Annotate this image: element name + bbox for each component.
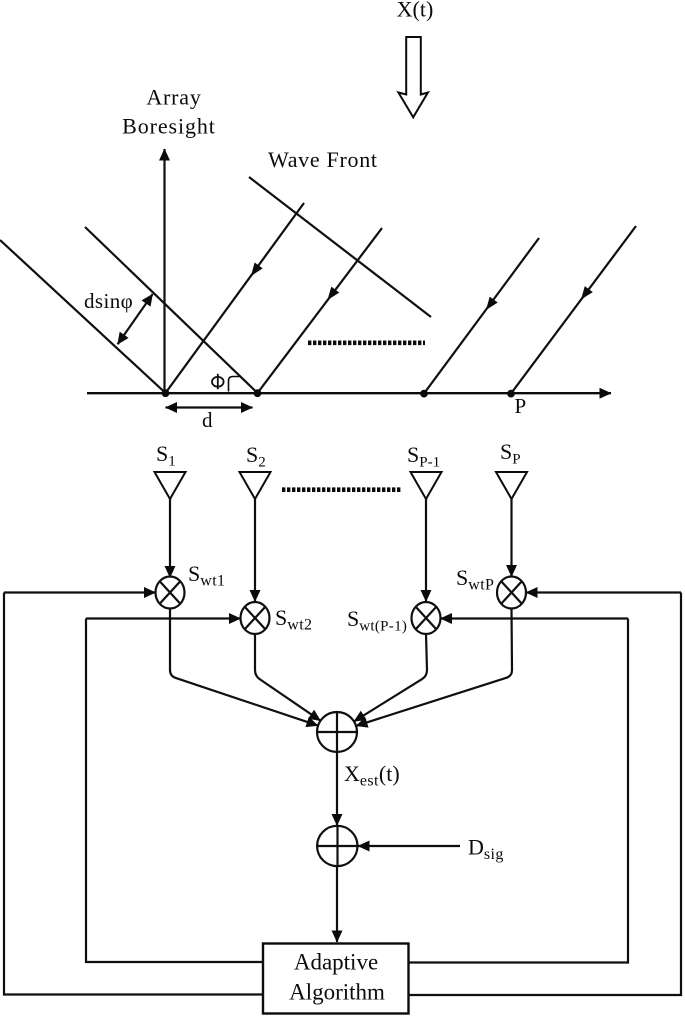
- label phi: [212, 374, 224, 390]
- wire multiplier M4 to summer: [356, 609, 512, 726]
- wire antenna 1 to multiplier 1: [169, 499, 171, 578]
- svg-text:Algorithm: Algorithm: [289, 980, 385, 1005]
- incident ray R3: [424, 238, 539, 394]
- arrowhead on ray R1: [251, 263, 263, 277]
- wavefront line W1: [249, 177, 431, 317]
- antenna 4: [496, 472, 527, 499]
- wavefront line W3 through element 1: [0, 240, 166, 393]
- element dot 2: [254, 389, 262, 397]
- wire antenna 3 to multiplier 3: [425, 499, 427, 602]
- svg-text:dsinφ: dsinφ: [84, 289, 133, 313]
- feedback rail outer-left: [4, 593, 263, 995]
- block arrow: incoming signal direction: [398, 37, 428, 117]
- feedback arrow into M1: [4, 591, 156, 593]
- wire antenna 2 to multiplier 2: [254, 499, 256, 602]
- wire multiplier M1 to summer: [170, 609, 318, 726]
- svg-text:X(t): X(t): [397, 0, 434, 22]
- element dot 1: [162, 389, 170, 397]
- incident ray R1: [166, 203, 305, 393]
- svg-text:Boresight: Boresight: [122, 114, 216, 139]
- multiplier M4: [497, 577, 526, 609]
- wire multiplier M2 to summer: [255, 634, 321, 721]
- array axis (horizontal): [87, 392, 611, 394]
- antenna 3: [411, 472, 442, 499]
- wire summer S1 to summer S2: [336, 752, 338, 826]
- incident ray R2: [258, 228, 383, 393]
- summer S2 (error adder): [317, 826, 357, 866]
- svg-text:Array: Array: [146, 85, 201, 110]
- multiplier M3: [412, 602, 441, 634]
- feedback rail outer-right: [409, 593, 682, 996]
- wire Dsig into summer S2: [358, 845, 460, 847]
- adaptive algorithm box: [263, 944, 409, 1014]
- antenna 2: [240, 472, 271, 499]
- svg-text:P: P: [515, 394, 527, 418]
- feedback rail inner-right: [409, 619, 629, 963]
- feedback rail inner-left: [86, 619, 263, 963]
- dimension arrow dsin(phi): [118, 294, 153, 344]
- element dot 3: [420, 390, 428, 398]
- arrowhead on ray R4: [581, 286, 593, 299]
- antenna 1: [155, 472, 186, 499]
- wire summer S2 to adaptive algorithm box: [336, 866, 338, 942]
- angle mark for phi: [229, 377, 241, 392]
- wire antenna 4 to multiplier 4: [510, 499, 512, 577]
- dotted ellipsis between antennas: [282, 487, 401, 492]
- dotted ellipsis between rays: [308, 340, 425, 345]
- svg-text:Wave Front: Wave Front: [268, 147, 378, 172]
- feedback arrow into M4: [526, 591, 681, 593]
- wire multiplier M3 to summer: [354, 634, 427, 721]
- boresight axis arrow: [163, 149, 165, 393]
- incident ray R4: [511, 226, 636, 394]
- wavefront line W2 through element 2: [85, 227, 258, 393]
- arrowhead on ray R2: [328, 287, 340, 300]
- arrowhead on ray R3: [486, 297, 498, 310]
- multiplier M2: [241, 602, 270, 634]
- dimension arrow d: [166, 406, 253, 408]
- element dot 4: [507, 390, 515, 398]
- summer S1 (adder): [317, 712, 357, 752]
- feedback arrow into M2: [86, 617, 241, 619]
- svg-text:d: d: [202, 408, 213, 432]
- multiplier M1: [156, 577, 185, 609]
- svg-text:Adaptive: Adaptive: [294, 950, 378, 975]
- feedback arrow into M3: [441, 617, 629, 619]
